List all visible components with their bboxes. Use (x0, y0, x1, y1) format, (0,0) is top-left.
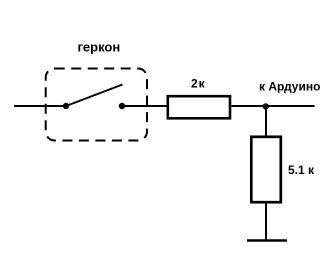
svg-text:геркон: геркон (78, 40, 121, 55)
svg-text:к Ардуино: к Ардуино (259, 80, 320, 94)
svg-text:5.1 к: 5.1 к (288, 163, 315, 177)
svg-text:2к: 2к (191, 77, 206, 91)
